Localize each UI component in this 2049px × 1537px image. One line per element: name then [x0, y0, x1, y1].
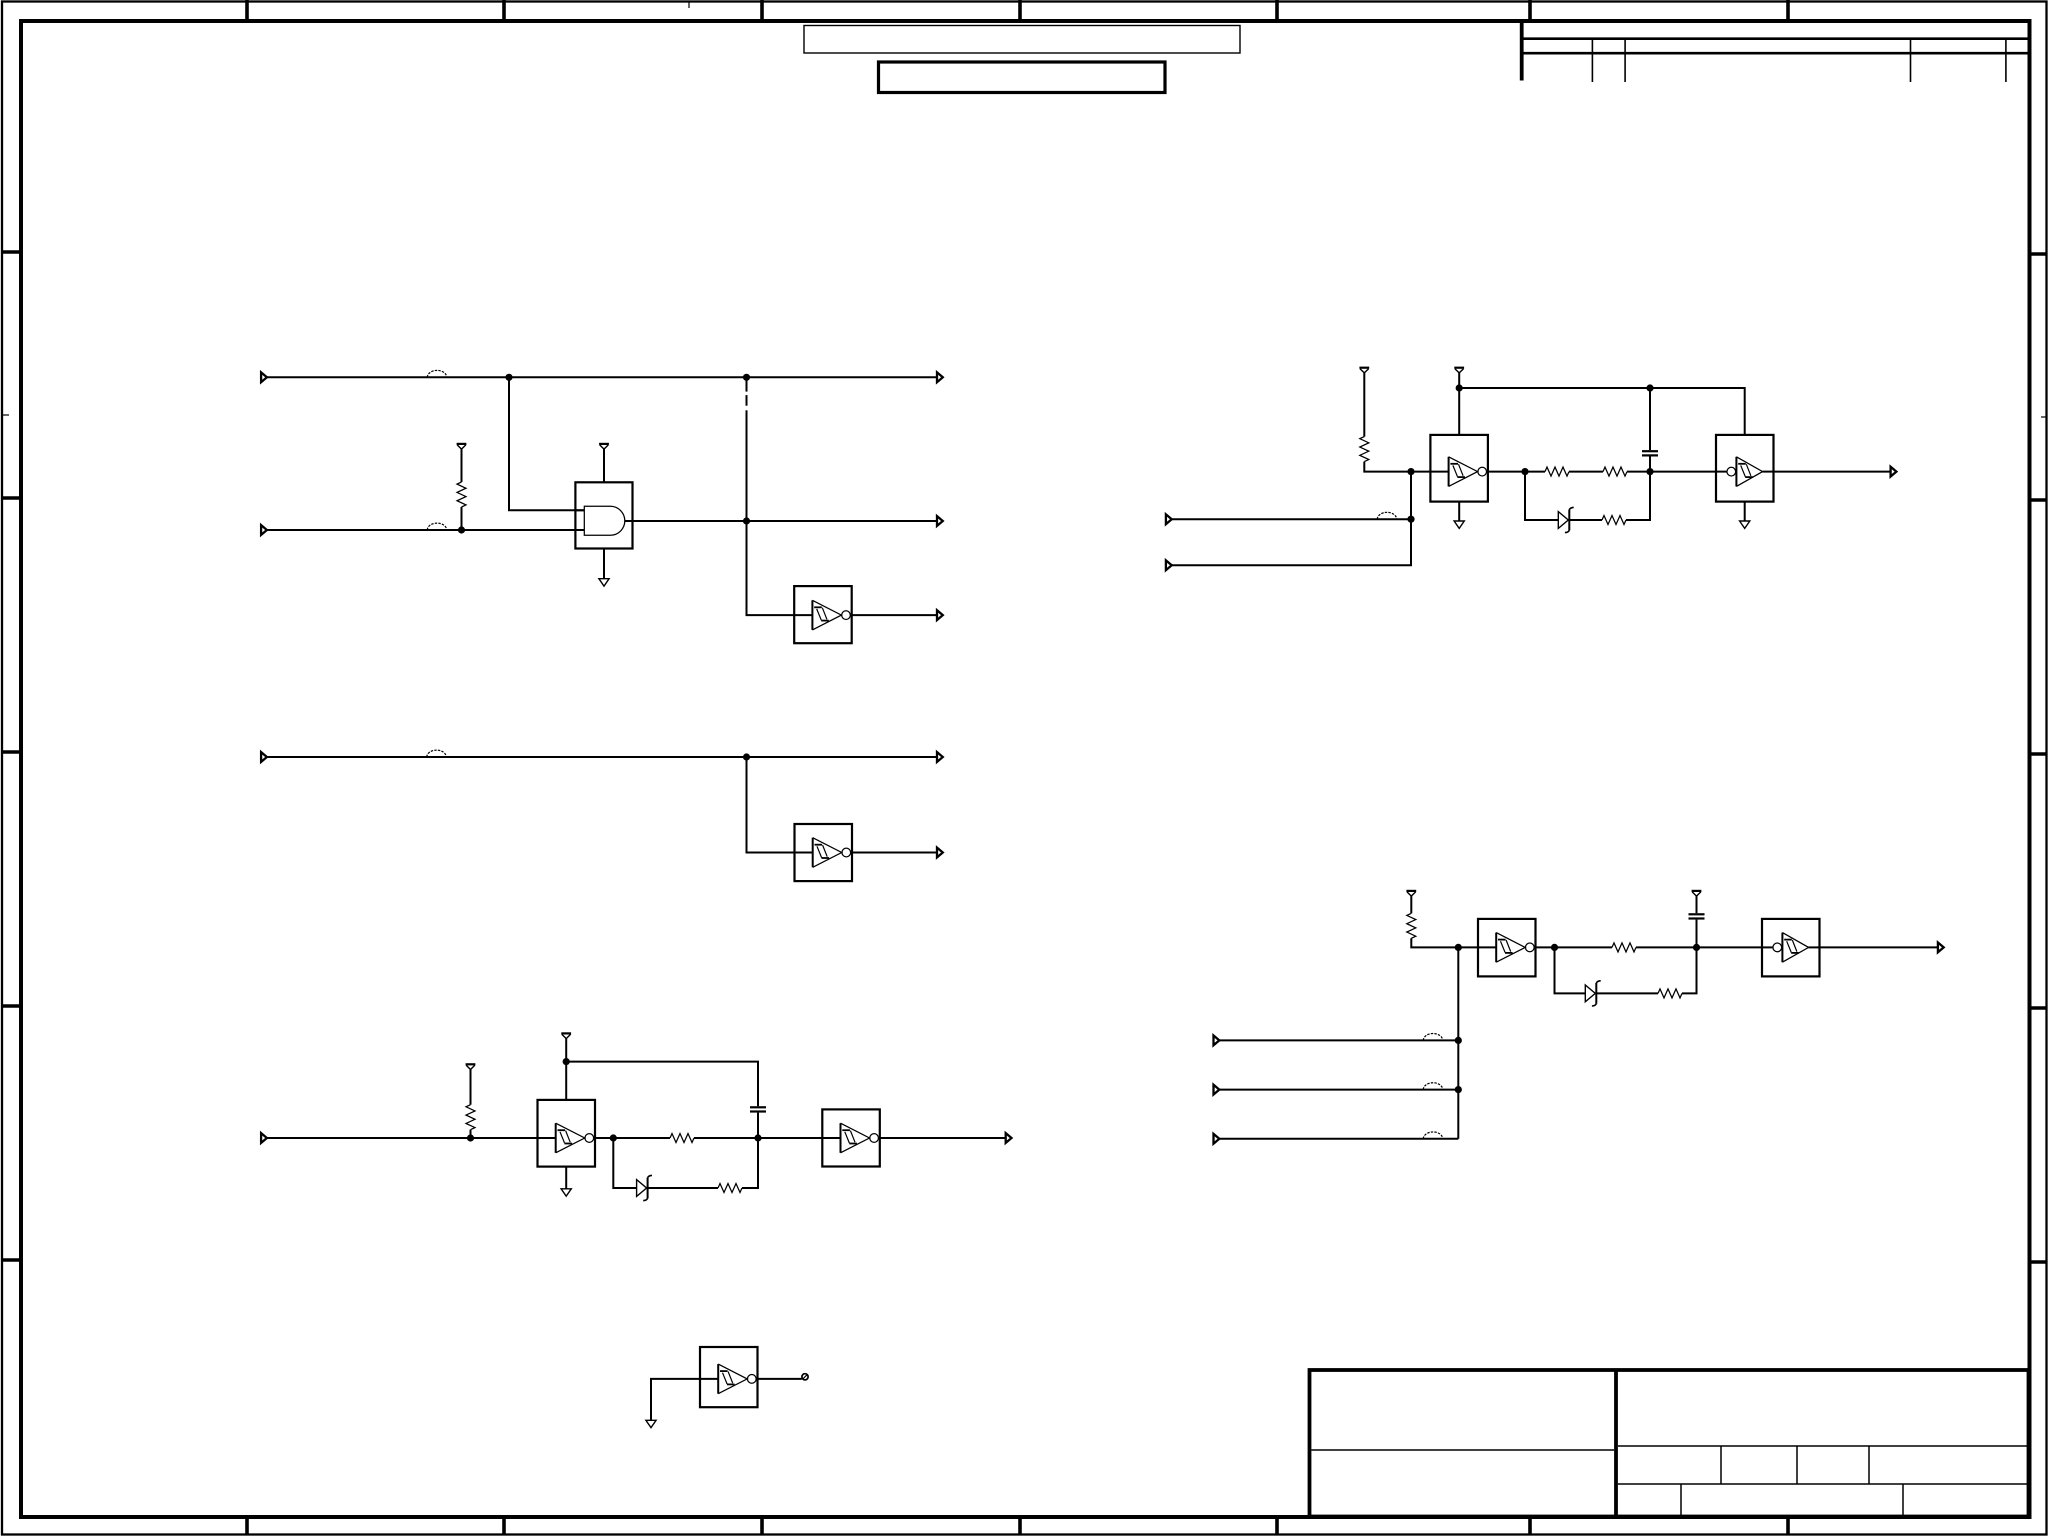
capacitor C2 — [1642, 451, 1658, 455]
wire E2 to U7 — [1411, 471, 1430, 473]
inline connector arc on net H1 — [1423, 1034, 1442, 1041]
no-connect marker — [802, 1374, 808, 1380]
node G1 junction — [1455, 944, 1462, 951]
wire lower branch right G — [1682, 947, 1697, 993]
AND gate U1 box — [575, 482, 632, 548]
node VP1 junction — [563, 1058, 570, 1065]
wire power to cap — [1696, 896, 1698, 913]
ground arrow for U8 — [1740, 521, 1750, 528]
wire lower branch left G — [1555, 947, 1586, 993]
title block outline — [1310, 1370, 2029, 1517]
wire U4 output — [595, 1137, 670, 1139]
resistor R2 pull-up — [466, 1070, 475, 1139]
revision table header line — [1522, 37, 2030, 40]
node E1 junction — [1407, 516, 1414, 523]
wire net E1 — [1172, 518, 1411, 520]
wire U8 output — [1774, 471, 1891, 473]
wire to U6 input — [651, 1379, 700, 1420]
inline connector arc on net B — [427, 523, 446, 530]
wire feedback rail — [566, 1062, 758, 1107]
resistor R7 — [1603, 467, 1627, 476]
left margin half tick — [3, 414, 9, 416]
inverter U9 — [1478, 919, 1536, 977]
wire U3 output — [852, 852, 937, 854]
node E2 junction — [1407, 468, 1414, 475]
title banner outline thick — [879, 62, 1166, 93]
output port P8 — [937, 848, 943, 858]
ground arrow for U7 — [1454, 521, 1464, 528]
ground arrow for U4 — [561, 1189, 571, 1196]
right margin half tick — [2041, 416, 2047, 418]
wire net H3 — [1219, 1138, 1458, 1140]
wire net H2 — [1219, 1089, 1458, 1091]
title block center divider — [1614, 1370, 1618, 1517]
wire zener to R11 — [1596, 992, 1658, 994]
wire cap to node F2 — [1649, 457, 1651, 472]
wire net B — [267, 529, 584, 531]
revision table column dividers — [1592, 39, 2006, 82]
revision table left edge — [1520, 20, 1524, 81]
inverter U5 — [822, 1109, 880, 1166]
wire A1 to AND input — [509, 377, 584, 510]
inline connector arc on net E1 — [1377, 512, 1396, 519]
resistor R5 pull-up — [1360, 373, 1411, 472]
wire U7 output — [1488, 471, 1545, 473]
bottom margin zone ticks — [247, 1519, 1788, 1534]
revision table row line — [1522, 52, 2030, 55]
node F2 junction — [1646, 468, 1653, 475]
node A2 junction — [743, 374, 750, 381]
inline connector arc on net C — [427, 750, 446, 757]
input port P15 — [1214, 1036, 1220, 1046]
wire net C — [267, 756, 937, 758]
wire C1 to node D3 — [757, 1113, 759, 1138]
output port P5 — [937, 610, 943, 620]
node VP2 junction — [1456, 384, 1463, 391]
inline connector arc on net A — [427, 370, 446, 377]
node G3 junction — [1693, 944, 1700, 951]
input port P9 — [261, 1133, 267, 1143]
wire lower branch right — [742, 1138, 758, 1188]
output port P4 — [937, 516, 943, 526]
title block right mid line — [1618, 1483, 2029, 1485]
power symbol for R5 — [1359, 368, 1369, 373]
output port P3 — [937, 372, 943, 382]
wire zener to R4 — [648, 1187, 718, 1189]
inline connector arc on net H3 — [1423, 1132, 1442, 1139]
power symbol for R9 — [1406, 891, 1416, 896]
wire cap to node G3 — [1696, 920, 1698, 948]
left margin zone ticks — [2, 252, 21, 1260]
U7 ground pin — [1458, 502, 1460, 521]
U4 power pin — [565, 1039, 567, 1100]
zener diode D1 — [637, 1175, 652, 1200]
output port P13 — [1891, 467, 1897, 477]
wire net H1 — [1219, 1039, 1458, 1041]
input port P11 — [1166, 514, 1172, 524]
node H1 junction — [1455, 1037, 1462, 1044]
wire net A — [267, 376, 937, 378]
resistor R11 — [1658, 989, 1682, 998]
wire net D — [267, 1137, 538, 1139]
input port P12 — [1166, 560, 1172, 570]
wire lower branch right F — [1626, 472, 1650, 520]
resistor R9 pull-up — [1407, 896, 1459, 947]
output port P10 — [1006, 1133, 1012, 1143]
inverter U2 — [794, 586, 852, 643]
node D3 junction — [754, 1134, 761, 1141]
title banner outline thin — [804, 26, 1240, 54]
title block row1 dividers — [1721, 1446, 1869, 1484]
title block row2 dividers — [1681, 1484, 1903, 1517]
wire U2 output — [852, 614, 937, 616]
wire net E2 — [1172, 472, 1411, 566]
wire U9 output — [1536, 946, 1613, 948]
node G2 junction — [1551, 944, 1558, 951]
inverter U6 — [700, 1347, 758, 1407]
capacitor C1 — [750, 1107, 766, 1111]
node C1 junction — [743, 753, 750, 760]
resistor R6 — [1545, 467, 1569, 476]
U4 ground pin — [565, 1167, 567, 1189]
resistor R1 pull-up — [457, 449, 466, 530]
node A1 junction — [505, 374, 512, 381]
power symbol for U1 — [599, 444, 609, 449]
U8 ground pin — [1744, 502, 1746, 521]
resistor R3 — [670, 1134, 694, 1143]
top margin zone ticks — [247, 0, 1788, 19]
capacitor C3 — [1689, 914, 1705, 918]
node O1 junction — [743, 517, 750, 524]
power rail wire — [1459, 388, 1745, 435]
node B1 junction — [458, 526, 465, 533]
wire G1 to U9 — [1458, 946, 1478, 948]
power symbol for R1 — [457, 444, 467, 449]
wire zener to R8 — [1569, 519, 1602, 521]
node D2 junction — [610, 1134, 617, 1141]
resistor R4 — [718, 1184, 742, 1193]
node VP3 junction — [1646, 384, 1653, 391]
wire lower branch left — [613, 1138, 636, 1188]
inverter U3 — [795, 824, 853, 881]
wire select vertical — [1457, 947, 1459, 1138]
inverter U7 — [1430, 435, 1488, 502]
resistor R8 — [1602, 516, 1626, 525]
inverter U4 — [538, 1100, 596, 1167]
power symbol for R2 — [466, 1064, 476, 1069]
wire A2 down with dashed break — [746, 377, 748, 521]
input port P2 — [261, 525, 267, 535]
input port P17 — [1214, 1134, 1220, 1144]
resistor R10 — [1612, 943, 1636, 952]
U7 power pin — [1458, 373, 1460, 435]
power symbol for U7 — [1454, 368, 1464, 373]
node D1 junction — [467, 1134, 474, 1141]
right margin zone ticks — [2030, 254, 2047, 1262]
ground arrow for U1 — [599, 579, 609, 586]
U1 power pin — [603, 449, 605, 482]
inverter U8 mirrored — [1716, 435, 1774, 502]
wire AND output — [633, 520, 938, 522]
input port P16 — [1214, 1085, 1220, 1095]
zener diode D3 — [1585, 981, 1600, 1006]
output port P14 — [1938, 943, 1944, 953]
power symbol for U4 — [561, 1033, 571, 1038]
wire U5 output — [880, 1137, 1006, 1139]
inverter U10 mirrored — [1762, 919, 1820, 977]
U1 ground pin — [603, 549, 605, 579]
input port P1 — [261, 372, 267, 382]
node F1 junction — [1521, 468, 1528, 475]
title block right upper line — [1618, 1445, 2029, 1447]
wire O1 to inverter — [747, 521, 795, 615]
wire lower branch left F — [1525, 472, 1558, 520]
power symbol for C3 — [1692, 891, 1702, 896]
zener diode D2 — [1558, 507, 1573, 532]
node H2 junction — [1455, 1086, 1462, 1093]
ground arrow for U6 input — [646, 1420, 656, 1427]
inline connector arc on net H2 — [1423, 1083, 1442, 1090]
title block left cell line — [1312, 1449, 1615, 1451]
AND gate U1 body — [584, 506, 625, 535]
wire U6 output — [758, 1378, 802, 1380]
top margin half tick — [688, 2, 690, 8]
wire cap to rail — [1649, 388, 1651, 450]
output port P7 — [937, 752, 943, 762]
wire U10 output — [1820, 946, 1938, 948]
input port P6 — [261, 752, 267, 762]
wire C1 to inverter — [747, 757, 795, 853]
U1 input stubs — [575, 510, 632, 530]
